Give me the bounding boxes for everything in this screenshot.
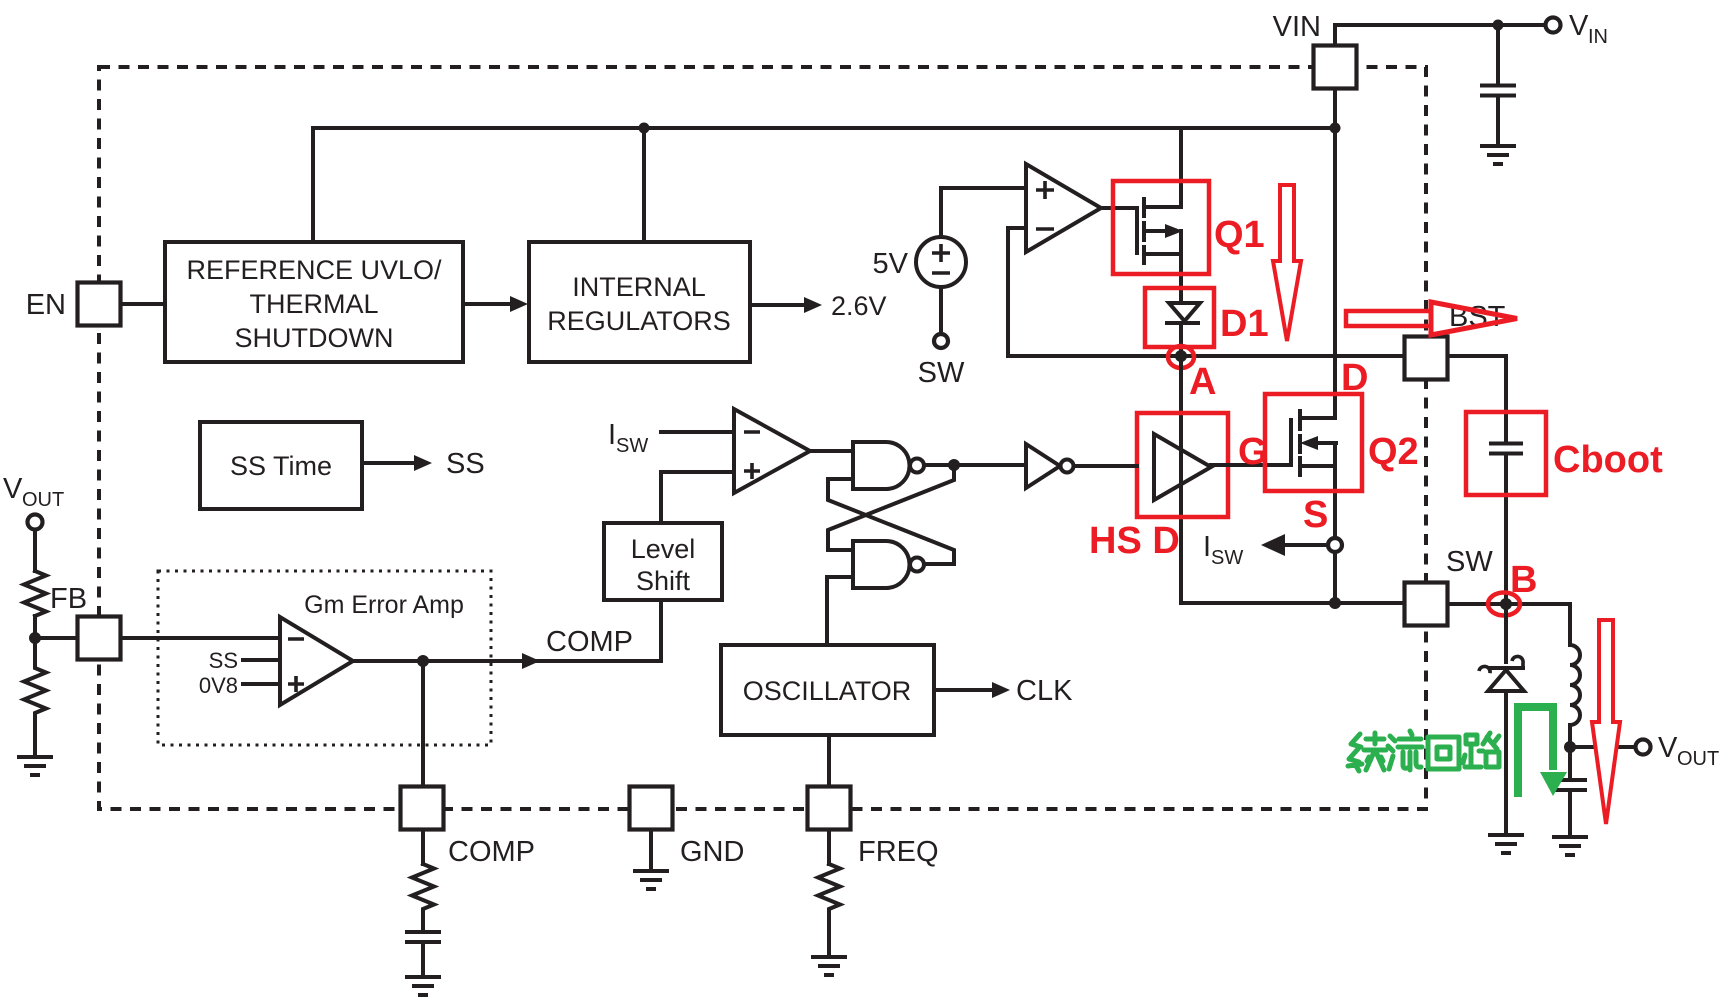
svg-text:OSCILLATOR: OSCILLATOR [743,676,912,706]
wire to VOUT terminal [1570,745,1635,749]
wire cross-couple Qbar to NAND set input [828,479,954,564]
svg-text:SS Time: SS Time [230,451,332,481]
wire node A rail (BST rail) [1008,354,1506,358]
pin COMP [401,787,444,830]
wire INTERNAL REGULATORS to 2.6V output arrow [750,303,806,307]
transistor Q2 high-side FET [1289,420,1293,465]
node B annotation circle [1488,593,1520,616]
wire SS Time output arrow [362,461,416,465]
svg-text:I: I [1203,531,1211,563]
svg-text:5V: 5V [873,248,909,280]
wire comparator inverting input feedback from node A [1008,228,1026,356]
op-amp HS gate driver [1179,356,1183,603]
wire VOUT to FB divider [33,530,37,571]
diode D2 freewheel schottky [1504,604,1508,662]
junction node A [1175,350,1187,362]
terminal VOUT left [28,515,43,530]
svg-text:B: B [1510,559,1537,601]
op-amp U1 bootstrap comparator [1026,164,1101,252]
ground output cap [1554,837,1586,855]
svg-text:CLK: CLK [1016,675,1073,707]
wire 5V source to comparator + input [941,188,1026,237]
wire COMP pin compensation network [421,830,425,864]
block OSCILLATOR [721,645,934,735]
terminal ISW sense on Q2 source [1328,538,1342,552]
junction latch output [948,459,960,471]
svg-text:FREQ: FREQ [858,836,939,868]
svg-text:V: V [1658,732,1678,764]
svg-text:REFERENCE UVLO/: REFERENCE UVLO/ [186,255,442,285]
label freewheel loop (green CJK strokes) [1348,731,1499,771]
wire comparator output to latch [810,449,853,453]
svg-text:Cboot: Cboot [1553,439,1663,481]
svg-text:EN: EN [26,289,66,321]
junction COMP net [417,655,429,667]
ground input cap [1482,146,1514,164]
svg-text:D1: D1 [1220,303,1269,345]
transistor Q1 pass device [1135,208,1139,253]
junction node B [1500,598,1512,610]
block INTERNAL REGULATORS [529,242,750,362]
svg-text:S: S [1303,494,1328,536]
terminal VIN external [1546,18,1561,33]
resistor R-COMP [412,864,434,931]
pin VIN [1314,46,1357,89]
ground GND pin [635,871,667,889]
junction FB node [29,632,41,644]
block SS Time [200,422,362,509]
terminal SW of 5V source [934,334,948,348]
junction bus/VIN [1330,123,1341,134]
svg-text:V: V [3,473,23,505]
wire comparator output to Q1 gate [1101,206,1137,210]
svg-text:V: V [1569,10,1589,42]
wire 0V8 input [243,682,280,686]
svg-text:INTERNAL: INTERNAL [572,272,706,302]
wire FB node to FB pin [35,636,78,640]
node A annotation circle [1168,346,1194,368]
svg-text:GND: GND [680,836,744,868]
svg-text:Level: Level [631,534,696,564]
annotation box HS driver [1137,413,1228,517]
annotation arrow current path Q1 [1273,185,1301,341]
annotation box Q2 [1265,394,1362,491]
wire GND pin to ground [649,830,653,871]
svg-text:OUT: OUT [1677,748,1719,770]
svg-text:SHUTDOWN: SHUTDOWN [235,323,394,353]
svg-text:2.6V: 2.6V [831,291,887,321]
block Level Shift [604,523,722,600]
pin GND [630,787,673,830]
ground FB divider [19,757,51,775]
wire CLK to latch lower input [827,577,853,645]
pin BST [1405,337,1448,380]
pin FREQ [808,787,851,830]
terminal VOUT external [1636,740,1651,755]
wire VIN down to Q2 drain [1333,88,1337,418]
wire REFERENCE to INTERNAL REGULATORS with arrow [463,302,513,306]
wire SW pin to output node B [1448,602,1570,606]
svg-text:SS: SS [209,648,238,673]
char xu [1348,734,1362,771]
op-amp U3 current comparator [734,409,810,493]
svg-text:THERMAL: THERMAL [249,289,378,319]
op-amp U2 Gm error amplifier [280,617,353,705]
wire FREQ pin to resistor [827,830,831,864]
svg-text:SW: SW [616,435,648,457]
char lu [1463,735,1483,767]
pin FB [78,617,121,660]
wire inverter to HS driver [1074,464,1137,468]
wire oscillator to FREQ pin [827,735,831,787]
svg-text:REGULATORS: REGULATORS [547,306,731,336]
junction output node [1564,741,1576,753]
svg-text:SW: SW [918,357,965,389]
svg-text:COMP: COMP [448,836,535,868]
wire EN to REFERENCE box [121,302,165,306]
ground FREQ resistor [813,957,845,975]
block REFERENCE UVLO / THERMAL SHUTDOWN [165,242,463,362]
capacitor input C [1496,25,1500,84]
wire top supply bus [313,126,1335,130]
svg-text:COMP: COMP [546,626,633,658]
IC boundary dashed box [99,67,1426,809]
svg-text:Q2: Q2 [1368,431,1419,473]
capacitor output C [1568,747,1572,779]
inductor L1 [1568,604,1572,645]
wire ISW input [661,430,734,434]
svg-text:IN: IN [1588,26,1608,48]
wire oscillator CLK output arrow [934,688,994,692]
svg-text:0V8: 0V8 [199,673,238,698]
annotation box D1 [1145,288,1214,347]
annotation arrow output current [1592,620,1620,824]
svg-text:G: G [1238,431,1268,473]
ground schottky [1490,835,1522,853]
gate U5 NAND reset [853,541,909,588]
svg-text:VIN: VIN [1273,11,1321,43]
wire SS input [243,658,280,662]
capacitor Cboot [1491,442,1521,446]
wire bus to REFERENCE box [311,128,315,242]
junction Q2 source / SW rail [1329,597,1341,609]
wire 5V source to SW terminal [939,287,943,334]
annotation arrow freewheel loop [1518,707,1553,797]
wire ISW sense arrow [1283,543,1328,547]
junction bus/internal-reg [639,123,650,134]
svg-text:A: A [1189,361,1216,403]
junction VIN rail / input cap [1493,20,1504,31]
wire Level Shift to current comparator + input [661,472,734,523]
wire HS driver output to Q2 gate [1211,463,1291,467]
svg-text:OUT: OUT [22,489,64,511]
wire FB pin to error amp inverting input [121,636,280,640]
char liu [1388,736,1395,769]
diode D1 [1169,303,1200,321]
annotation box Cboot [1466,412,1546,495]
annotation arrow into BST pin [1346,311,1431,326]
svg-text:SW: SW [1446,546,1493,578]
char hui [1428,737,1459,769]
pin SW [1405,583,1448,626]
wire COMP net down to COMP pin [421,661,425,787]
wire Cboot top [1504,356,1508,443]
annotation box Q1 [1113,181,1209,274]
resistor R-FB-top [24,571,46,616]
resistor R-FREQ [818,864,840,957]
svg-text:Gm Error Amp: Gm Error Amp [304,591,464,619]
inverter U6 buffer [1026,444,1060,488]
svg-text:I: I [608,419,616,451]
wire bus to INTERNAL REGULATORS box [642,128,646,242]
capacitor C-COMP [407,930,439,934]
wire SW node rail [1181,601,1405,605]
svg-text:SS: SS [446,448,485,480]
wire cross-couple Q to NAND reset input [828,465,954,550]
gate U4 NAND set [853,442,909,489]
pin EN [78,283,121,326]
wire error amp output COMP net [353,600,661,661]
voltage source 5V [916,237,966,287]
svg-text:Shift: Shift [636,566,691,596]
wire VIN pin up to VIN rail [1335,25,1545,46]
svg-text:SW: SW [1211,547,1243,569]
wire latch Q output [924,463,1026,467]
svg-text:Q1: Q1 [1214,214,1265,256]
resistor R-FB-bottom [24,638,46,757]
block Gm Error Amp dotted boundary [158,571,491,745]
svg-text:HS D: HS D [1089,520,1180,562]
svg-text:FB: FB [50,583,87,615]
ground COMP network [407,977,439,995]
